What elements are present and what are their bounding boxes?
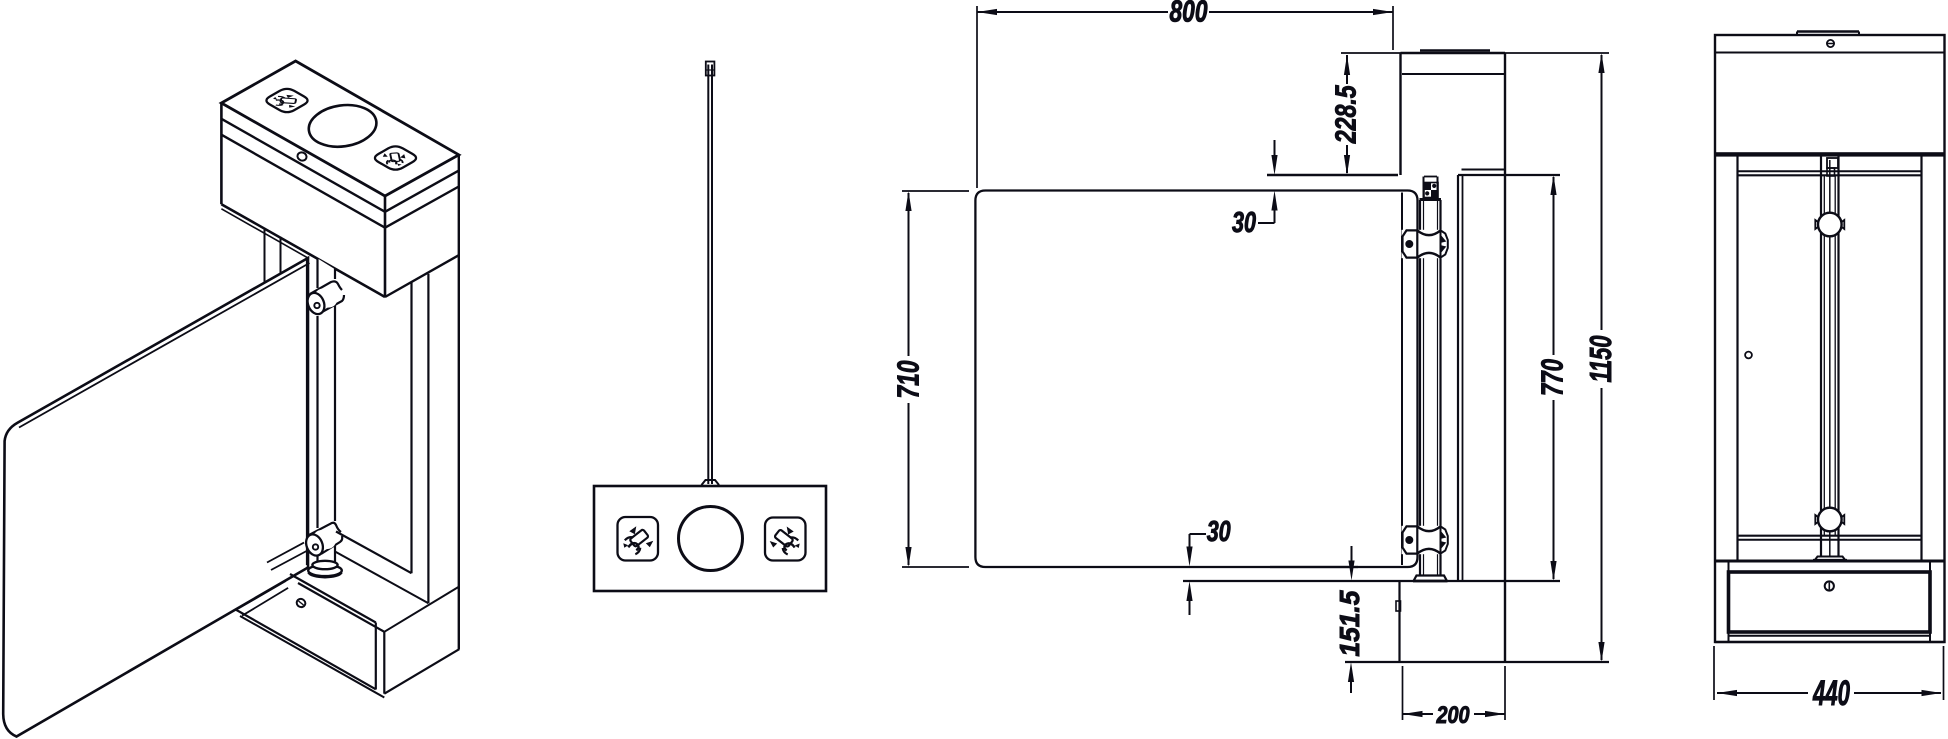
svg-text:151.5: 151.5 xyxy=(1334,590,1365,656)
svg-text:710: 710 xyxy=(891,361,926,399)
svg-text:30: 30 xyxy=(1232,207,1256,239)
svg-text:800: 800 xyxy=(1170,0,1208,29)
svg-text:770: 770 xyxy=(1535,359,1570,396)
svg-text:228.5: 228.5 xyxy=(1330,85,1362,144)
svg-text:1150: 1150 xyxy=(1583,336,1618,383)
svg-text:440: 440 xyxy=(1812,674,1850,713)
svg-text:200: 200 xyxy=(1436,702,1470,729)
svg-text:30: 30 xyxy=(1207,516,1231,548)
